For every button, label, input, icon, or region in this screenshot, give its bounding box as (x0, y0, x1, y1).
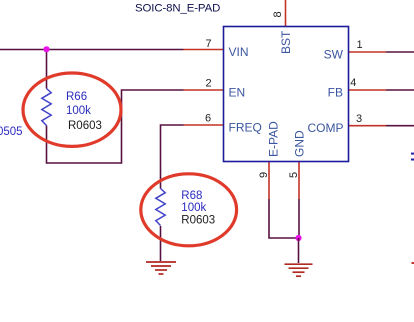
ground below R68 (146, 262, 176, 274)
pin 8 stub BST (285, 0, 287, 26)
cut-off marks at right edge (411, 153, 414, 155)
wire FB net (386, 89, 414, 91)
wire VIN net horizontal (0, 49, 184, 51)
svg-text:2: 2 (205, 78, 211, 90)
svg-text:FB: FB (328, 86, 343, 100)
cut-off ground mark right edge (412, 262, 414, 264)
svg-text:100k: 100k (66, 105, 91, 117)
pin 2 stub EN (184, 89, 224, 91)
node junction VIN/R66 (43, 46, 49, 52)
svg-text:GND: GND (293, 130, 307, 157)
pin 4 stub FB (349, 89, 387, 91)
svg-text:R0603: R0603 (181, 215, 215, 227)
pin 5 stub GND (298, 162, 300, 200)
wire E-PAD net to junction (269, 199, 299, 238)
svg-text:BST: BST (279, 30, 293, 54)
resistor R68 zigzag (156, 189, 165, 226)
svg-text:0505: 0505 (0, 126, 23, 138)
svg-text:COMP: COMP (308, 121, 344, 135)
pin 1 stub SW (349, 51, 387, 53)
pin 6 stub FREQ (184, 124, 224, 126)
svg-text:3: 3 (356, 113, 362, 125)
svg-text:5: 5 (288, 172, 300, 178)
wire R66 bottom to EN net (47, 90, 184, 163)
svg-text:8: 8 (272, 11, 284, 17)
svg-text:VIN: VIN (229, 45, 249, 59)
wire junction to ground (298, 238, 300, 263)
resistor R66 zigzag (42, 89, 51, 126)
wire FREQ net to R68 (161, 125, 184, 189)
svg-text:R66: R66 (66, 91, 87, 103)
svg-text:FREQ: FREQ (229, 121, 262, 135)
ground below GND/E-PAD junction (285, 264, 313, 276)
svg-text:9: 9 (258, 172, 270, 178)
wire R66 top vertical (46, 50, 48, 89)
svg-text:SW: SW (324, 48, 344, 62)
svg-text:EN: EN (229, 86, 246, 100)
wire SW net (386, 51, 414, 53)
annotation ellipse around R66 (23, 73, 121, 146)
node junction E-PAD/GND (295, 235, 301, 241)
svg-text:SOIC-8N_E-PAD: SOIC-8N_E-PAD (135, 3, 220, 15)
svg-text:4: 4 (350, 77, 356, 89)
svg-text:R0603: R0603 (68, 120, 102, 132)
svg-text:E-PAD: E-PAD (267, 121, 281, 157)
pin 3 stub COMP (349, 125, 387, 127)
svg-text:100k: 100k (181, 202, 206, 214)
pin 9 stub E-PAD (268, 162, 270, 200)
svg-text:1: 1 (356, 39, 362, 51)
svg-text:7: 7 (205, 38, 211, 50)
annotation ellipse around R68 (141, 174, 237, 246)
wire R68 bottom to ground (160, 226, 162, 261)
svg-text:6: 6 (205, 113, 211, 125)
pin 7 stub VIN (184, 49, 224, 51)
wire COMP net (386, 125, 414, 127)
svg-text:R68: R68 (181, 190, 202, 202)
op-amp U? IC body SOIC-8N_E-PAD (224, 27, 349, 162)
wire GND pin net vertical (298, 199, 300, 238)
